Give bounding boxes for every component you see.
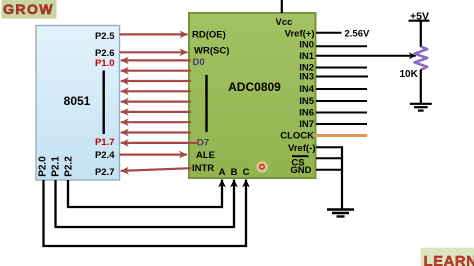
ground symbol (ADC) bbox=[327, 210, 354, 217]
data bus wire bbox=[121, 121, 191, 123]
svg-text:CLOCK: CLOCK bbox=[280, 131, 314, 142]
svg-text:LEARN: LEARN bbox=[424, 254, 474, 266]
svg-text:Vref(-): Vref(-) bbox=[288, 143, 315, 154]
svg-text:P1.7: P1.7 bbox=[95, 137, 115, 148]
svg-text:P1.0: P1.0 bbox=[95, 58, 115, 69]
ground symbol (resistor) bbox=[410, 104, 432, 111]
data bus wire D0 bbox=[121, 59, 191, 61]
wire P2.5 to RD(OE) bbox=[120, 33, 188, 35]
svg-text:IN5: IN5 bbox=[299, 96, 315, 107]
svg-text:WR(SC): WR(SC) bbox=[194, 46, 229, 57]
svg-text:IN6: IN6 bbox=[299, 108, 314, 119]
CS overline bbox=[292, 155, 309, 157]
svg-text:Vref(+): Vref(+) bbox=[285, 29, 315, 40]
svg-text:RD(OE): RD(OE) bbox=[192, 30, 226, 41]
data bus wire bbox=[121, 111, 191, 113]
wire GND bbox=[316, 169, 343, 171]
svg-text:ALE: ALE bbox=[196, 150, 215, 161]
IC U1 ADC0809 box bbox=[189, 13, 316, 178]
svg-text:C: C bbox=[243, 167, 250, 178]
svg-text:IN7: IN7 bbox=[299, 119, 314, 130]
data bus wire bbox=[121, 131, 191, 133]
wire Vref(-) bbox=[316, 146, 343, 148]
svg-text:GND: GND bbox=[290, 165, 311, 176]
wire CLOCK bbox=[316, 134, 366, 137]
wire P2.2 to A bbox=[68, 180, 222, 208]
wire +5V to resistor bbox=[420, 21, 422, 47]
svg-text:2.56V: 2.56V bbox=[345, 29, 370, 40]
wire P2.0 to C bbox=[44, 180, 247, 247]
data bus wire bbox=[121, 100, 191, 102]
svg-text:IN4: IN4 bbox=[299, 84, 315, 95]
data bus wire bbox=[121, 90, 191, 92]
wire IN1 to resistor bbox=[316, 55, 416, 57]
svg-text:P2.7: P2.7 bbox=[95, 167, 115, 178]
svg-text:8051: 8051 bbox=[64, 94, 91, 108]
wire resistor to ground bbox=[420, 70, 422, 104]
svg-text:10K: 10K bbox=[400, 69, 419, 80]
wire CS bbox=[316, 157, 343, 159]
svg-text:Vcc: Vcc bbox=[276, 17, 293, 28]
svg-text:P2.1: P2.1 bbox=[51, 156, 62, 177]
wire IN7 bbox=[316, 123, 367, 125]
svg-text:B: B bbox=[231, 167, 238, 178]
wire IN3 bbox=[316, 76, 368, 78]
LEARN logo bbox=[421, 248, 474, 266]
wire P2.4 to ALE bbox=[120, 154, 188, 156]
laser pointer dot bbox=[255, 160, 269, 174]
svg-text:P2.4: P2.4 bbox=[95, 150, 115, 161]
svg-text:IN1: IN1 bbox=[299, 51, 315, 62]
svg-text:P2.5: P2.5 bbox=[95, 31, 115, 42]
wire IN6 bbox=[316, 112, 367, 114]
wire P2.6 to WR(SC) bbox=[120, 51, 188, 53]
+5V supply bar bbox=[409, 20, 430, 22]
svg-text:D0: D0 bbox=[193, 57, 205, 68]
GROW logo bbox=[2, 0, 57, 19]
svg-text:INTR: INTR bbox=[192, 163, 214, 174]
wire IN4 bbox=[316, 88, 367, 90]
data bus wire D7 bbox=[121, 142, 199, 144]
wire Vref(+) to 2.56V bbox=[316, 32, 342, 34]
resistor R1 10K bbox=[415, 47, 428, 70]
data bus wire bbox=[121, 80, 191, 82]
ADC data bus range line bbox=[205, 75, 207, 132]
svg-text:A: A bbox=[219, 167, 226, 178]
wire INTR to P2.7 bbox=[121, 168, 192, 171]
wire P2.1 to B bbox=[56, 180, 235, 228]
ground bus wire bbox=[341, 146, 343, 208]
svg-text:ADC0809: ADC0809 bbox=[228, 80, 281, 94]
svg-text:P2.2: P2.2 bbox=[64, 156, 75, 177]
wire IN2 bbox=[316, 67, 367, 69]
wire IN5 bbox=[316, 100, 367, 102]
svg-text:P2.0: P2.0 bbox=[38, 156, 49, 177]
svg-text:GROW: GROW bbox=[3, 1, 54, 17]
svg-text:IN3: IN3 bbox=[299, 72, 314, 83]
wire IN0 bbox=[316, 45, 367, 47]
data bus wire bbox=[121, 70, 191, 72]
IC U2 8051 box bbox=[36, 26, 120, 181]
Vcc supply wire bbox=[281, 0, 283, 13]
8051 port P1 range line bbox=[102, 71, 104, 135]
svg-text:IN0: IN0 bbox=[299, 40, 314, 51]
